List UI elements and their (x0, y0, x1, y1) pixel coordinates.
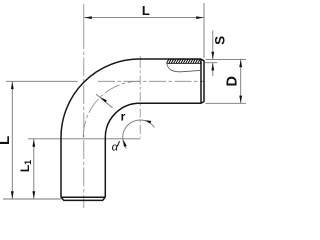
svg-text:r: r (121, 110, 126, 124)
svg-text:L: L (142, 3, 150, 18)
svg-text:L: L (0, 136, 13, 145)
svg-text:α: α (112, 141, 119, 153)
svg-text:S: S (212, 36, 227, 45)
svg-text:D: D (225, 76, 241, 86)
